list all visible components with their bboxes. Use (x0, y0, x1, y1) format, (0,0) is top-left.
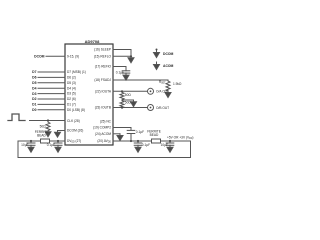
svg-text:O/B OUT: O/B OUT (156, 106, 169, 110)
svg-text:DCOM: DCOM (34, 55, 45, 59)
svg-text:D2: D2 (32, 97, 36, 101)
svg-text:10μF: 10μF (161, 143, 168, 147)
svg-text:DVDD (27): DVDD (27) (67, 139, 81, 143)
svg-text:+5V OR +3V (VDD): +5V OR +3V (VDD) (167, 136, 193, 140)
svg-text:BEAD: BEAD (150, 133, 159, 137)
svg-text:D6: D6 (32, 76, 36, 80)
svg-text:ACOM: ACOM (163, 64, 174, 68)
svg-text:D2 (6): D2 (6) (67, 97, 76, 101)
svg-text:50Ω: 50Ω (40, 125, 47, 129)
svg-text:(18) FSADJ: (18) FSADJ (94, 78, 111, 82)
svg-text:1.9kΩ: 1.9kΩ (173, 82, 182, 86)
svg-text:(25) NC: (25) NC (100, 120, 112, 124)
svg-text:D7 (MSB) (1): D7 (MSB) (1) (67, 70, 86, 74)
svg-text:0.1μF: 0.1μF (47, 143, 55, 147)
svg-text:RSET: RSET (159, 80, 166, 84)
svg-text:0.1μF: 0.1μF (136, 130, 144, 134)
svg-text:(17) REFIO: (17) REFIO (95, 65, 112, 69)
svg-text:CLK (28): CLK (28) (67, 119, 80, 123)
svg-text:(24) ACOM: (24) ACOM (95, 132, 111, 136)
svg-text:(19) COMP2: (19) COMP2 (93, 126, 111, 130)
svg-text:D1: D1 (32, 103, 36, 107)
svg-text:DCOM (26): DCOM (26) (67, 129, 83, 133)
svg-text:D5: D5 (32, 81, 36, 85)
svg-text:(22) IOUTA: (22) IOUTA (95, 89, 112, 93)
svg-text:D4: D4 (32, 86, 36, 90)
svg-text:D0 (LSB) (8): D0 (LSB) (8) (67, 108, 85, 112)
svg-text:(15) REFLO: (15) REFLO (94, 54, 112, 58)
svg-text:50Ω: 50Ω (125, 93, 132, 97)
svg-text:D3 (5): D3 (5) (67, 92, 76, 96)
svg-text:D5 (3): D5 (3) (67, 81, 76, 85)
svg-text:D3: D3 (32, 92, 36, 96)
svg-text:D7: D7 (32, 70, 36, 74)
svg-text:(16) SLEEP: (16) SLEEP (94, 48, 111, 52)
svg-text:D0: D0 (32, 108, 36, 112)
svg-text:9-15, (9): 9-15, (9) (67, 54, 79, 58)
svg-text:BEAD: BEAD (37, 134, 46, 138)
svg-text:DCOM: DCOM (163, 52, 174, 56)
svg-text:0.1μF: 0.1μF (142, 143, 150, 147)
svg-text:D1 (7): D1 (7) (67, 103, 76, 107)
svg-text:D4 (4): D4 (4) (67, 86, 76, 90)
svg-text:O/A OUT: O/A OUT (156, 90, 169, 94)
svg-text:FERRITE: FERRITE (35, 130, 49, 134)
svg-text:50Ω: 50Ω (125, 101, 132, 105)
svg-text:(23) IOUTB: (23) IOUTB (95, 106, 111, 110)
svg-text:0.1μF: 0.1μF (116, 71, 124, 75)
svg-text:(20) AVDD: (20) AVDD (97, 139, 111, 143)
svg-text:FERRITE: FERRITE (147, 129, 161, 133)
svg-text:10μF: 10μF (21, 143, 28, 147)
svg-text:AD9708: AD9708 (85, 39, 100, 44)
svg-text:D6 (2): D6 (2) (67, 76, 76, 80)
